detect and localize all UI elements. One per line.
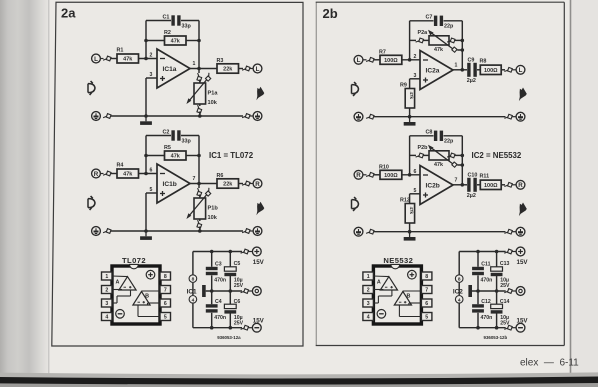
svg-text:A: A — [377, 280, 381, 286]
svg-text:R12: R12 — [400, 197, 410, 203]
svg-text:3: 3 — [367, 301, 370, 307]
svg-text:47k: 47k — [123, 57, 133, 63]
svg-text:R6: R6 — [217, 173, 224, 179]
svg-text:470n: 470n — [481, 315, 493, 321]
svg-text:8: 8 — [164, 274, 167, 280]
svg-text:2µ2: 2µ2 — [467, 193, 476, 199]
svg-text:L: L — [256, 66, 260, 73]
svg-text:47k: 47k — [123, 172, 133, 178]
svg-text:2µ2: 2µ2 — [467, 78, 476, 84]
svg-text:C3: C3 — [215, 262, 222, 268]
svg-text:6: 6 — [164, 301, 167, 307]
svg-text:2: 2 — [414, 54, 417, 60]
svg-text:25V: 25V — [234, 283, 244, 289]
svg-text:A: A — [116, 280, 120, 286]
svg-text:IC2 = NE5532: IC2 = NE5532 — [472, 151, 522, 160]
svg-text:IC2a: IC2a — [426, 68, 440, 75]
svg-text:C10: C10 — [468, 172, 478, 178]
svg-text:470n: 470n — [214, 315, 226, 321]
svg-text:1: 1 — [193, 61, 196, 67]
svg-text:936053-12b: 936053-12b — [484, 335, 508, 340]
svg-text:33p: 33p — [182, 139, 192, 145]
svg-text:R7: R7 — [379, 49, 386, 55]
svg-text:2a: 2a — [61, 6, 76, 21]
svg-text:R2: R2 — [164, 30, 171, 36]
svg-text:2: 2 — [367, 288, 370, 294]
svg-text:47k: 47k — [409, 92, 414, 100]
svg-text:25V: 25V — [234, 321, 244, 327]
svg-text:C13: C13 — [500, 261, 510, 267]
svg-text:8: 8 — [425, 274, 428, 280]
svg-text:470n: 470n — [481, 277, 493, 283]
svg-text:IC1: IC1 — [187, 288, 197, 295]
svg-text:C8: C8 — [426, 129, 433, 135]
svg-text:4: 4 — [192, 297, 195, 303]
svg-text:C11: C11 — [481, 262, 490, 268]
svg-text:P2a: P2a — [418, 30, 429, 36]
svg-text:47k: 47k — [434, 47, 443, 53]
svg-text:100Ω: 100Ω — [384, 58, 398, 64]
svg-text:47k: 47k — [409, 207, 414, 215]
svg-text:R9: R9 — [400, 82, 407, 88]
svg-text:47k: 47k — [171, 154, 181, 160]
svg-text:C1: C1 — [163, 14, 170, 20]
svg-text:C7: C7 — [426, 14, 433, 20]
svg-text:IC2: IC2 — [453, 288, 463, 295]
svg-text:10k: 10k — [208, 100, 218, 106]
svg-text:5: 5 — [164, 315, 167, 321]
svg-text:470n: 470n — [214, 277, 226, 283]
svg-text:5: 5 — [150, 187, 153, 193]
svg-text:10k: 10k — [208, 215, 218, 221]
svg-text:8: 8 — [458, 277, 461, 283]
svg-text:R4: R4 — [117, 163, 124, 169]
svg-text:100Ω: 100Ω — [484, 68, 498, 74]
svg-text:47k: 47k — [171, 39, 181, 45]
svg-text:B: B — [145, 294, 149, 300]
svg-text:6: 6 — [425, 301, 428, 307]
svg-text:C4: C4 — [215, 299, 222, 305]
svg-text:22p: 22p — [444, 139, 454, 145]
svg-text:IC1 = TL072: IC1 = TL072 — [209, 151, 254, 160]
svg-text:3: 3 — [414, 73, 417, 79]
svg-text:R1: R1 — [117, 48, 124, 54]
svg-text:22k: 22k — [223, 67, 233, 73]
svg-text:15V: 15V — [253, 317, 265, 324]
svg-text:C5: C5 — [234, 261, 241, 267]
svg-text:R10: R10 — [379, 164, 389, 170]
svg-text:8: 8 — [192, 277, 195, 283]
svg-text:R: R — [518, 182, 523, 189]
svg-text:C9: C9 — [468, 57, 475, 63]
svg-text:C12: C12 — [481, 299, 491, 305]
svg-text:IC2b: IC2b — [426, 183, 440, 190]
svg-text:R: R — [255, 181, 260, 188]
svg-text:936053-12a: 936053-12a — [217, 335, 241, 340]
svg-text:R5: R5 — [164, 145, 171, 151]
svg-text:6: 6 — [150, 167, 153, 173]
svg-text:R11: R11 — [480, 173, 490, 179]
svg-text:15V: 15V — [517, 259, 529, 266]
svg-text:1: 1 — [105, 274, 108, 280]
svg-text:7: 7 — [455, 178, 458, 184]
svg-text:6: 6 — [414, 169, 417, 175]
svg-text:C14: C14 — [500, 299, 510, 305]
svg-text:R: R — [94, 171, 99, 178]
svg-text:2: 2 — [105, 288, 108, 294]
svg-text:7: 7 — [425, 288, 428, 294]
svg-text:elex — 6-11: elex — 6-11 — [520, 358, 579, 369]
svg-text:2b: 2b — [323, 6, 338, 21]
svg-text:100Ω: 100Ω — [384, 173, 398, 179]
svg-text:R8: R8 — [480, 58, 487, 64]
svg-text:R: R — [356, 172, 361, 179]
svg-text:L: L — [519, 67, 523, 74]
svg-text:15V: 15V — [517, 317, 529, 324]
svg-text:5: 5 — [425, 315, 428, 321]
svg-text:4: 4 — [367, 315, 370, 321]
svg-text:L: L — [357, 57, 361, 64]
svg-text:3: 3 — [105, 301, 108, 307]
svg-text:2: 2 — [150, 52, 153, 58]
svg-text:C2: C2 — [163, 129, 170, 135]
svg-text:C6: C6 — [234, 299, 241, 305]
svg-text:TL072: TL072 — [122, 256, 146, 265]
svg-text:P1a: P1a — [208, 91, 219, 97]
svg-text:4: 4 — [105, 315, 108, 321]
svg-text:P2b: P2b — [418, 145, 429, 151]
svg-text:R3: R3 — [217, 58, 224, 64]
svg-text:IC1b: IC1b — [163, 181, 177, 188]
svg-text:1: 1 — [455, 63, 458, 69]
svg-text:33p: 33p — [182, 24, 192, 30]
svg-text:P1b: P1b — [208, 206, 219, 212]
svg-text:3: 3 — [150, 72, 153, 78]
svg-text:L: L — [94, 56, 98, 63]
svg-text:NE5532: NE5532 — [383, 256, 413, 265]
svg-text:100Ω: 100Ω — [484, 183, 498, 189]
svg-text:1: 1 — [367, 274, 370, 280]
svg-text:IC1a: IC1a — [163, 66, 177, 73]
svg-text:47k: 47k — [434, 162, 443, 168]
svg-text:7: 7 — [193, 176, 196, 182]
svg-text:B: B — [407, 294, 411, 300]
svg-text:5: 5 — [414, 188, 417, 194]
svg-text:22p: 22p — [444, 24, 454, 30]
svg-text:4: 4 — [458, 297, 461, 303]
svg-text:22k: 22k — [223, 182, 233, 188]
svg-text:7: 7 — [164, 288, 167, 294]
svg-text:15V: 15V — [253, 259, 265, 266]
